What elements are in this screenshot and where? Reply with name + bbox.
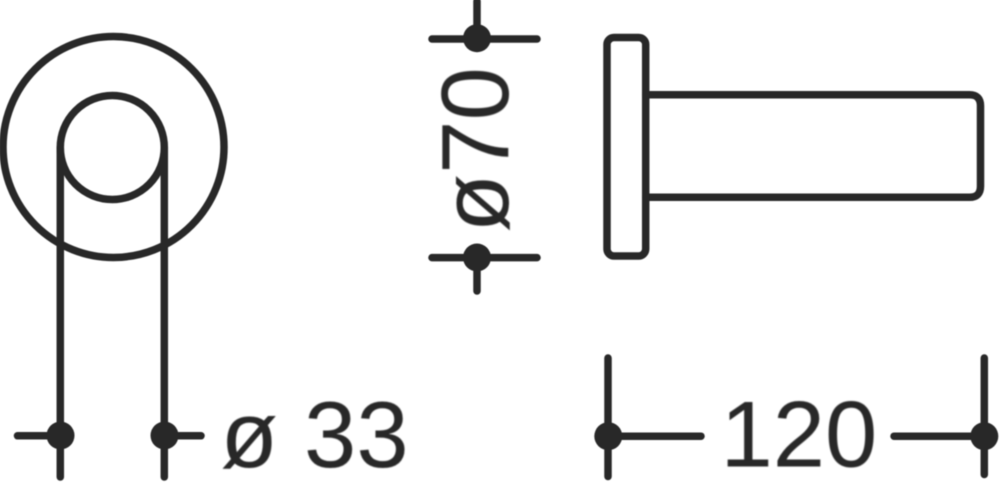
- rod (side view): [646, 95, 981, 198]
- dimension dot top (ø70): [463, 24, 491, 52]
- dimension dot right (120): [970, 422, 998, 450]
- wire right tangent line: [161, 148, 169, 478]
- dimension dot left (ø33): [47, 422, 75, 450]
- dimension tick left (ø33): [18, 432, 61, 440]
- dimension tick top (ø70): [432, 35, 537, 43]
- wall plate (side view): [607, 38, 646, 257]
- dimension line 120 left segment: [608, 432, 701, 440]
- svg-text:ø 33: ø 33: [221, 382, 409, 486]
- inner circle (front view, rod ø33): [60, 96, 164, 200]
- dimension tick right (ø33): [165, 432, 202, 440]
- outer circle (front view, plate ø70): [3, 37, 224, 258]
- dimension line ø70 upper segment: [473, 1, 481, 38]
- dimension tick left (120): [604, 358, 612, 477]
- dimension dot right (ø33): [151, 422, 179, 450]
- svg-text:120: 120: [721, 382, 878, 486]
- dimension dot bottom (ø70): [463, 244, 491, 272]
- dimension dot left (120): [594, 422, 622, 450]
- svg-text:ø70: ø70: [422, 67, 529, 232]
- dimension line ø70 lower segment: [473, 258, 481, 292]
- dimension line 120 right segment: [894, 432, 984, 440]
- dimension tick right (120): [981, 358, 989, 475]
- dimension tick bottom (ø70): [432, 254, 537, 262]
- wire left tangent line: [57, 148, 65, 478]
